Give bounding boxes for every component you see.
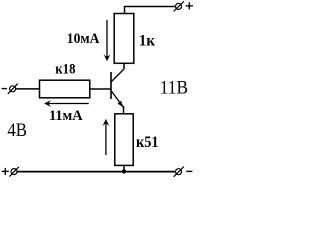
resistor R1 value 1к — [114, 14, 134, 64]
wire left terminal to R2 — [16, 88, 40, 90]
svg-text:11В: 11В — [160, 78, 188, 98]
wire bottom rail — [17, 171, 176, 173]
svg-text:к51: к51 — [136, 134, 159, 151]
transistor Q1 emitter lead — [111, 91, 124, 108]
terminal bottom-right (−) — [174, 167, 184, 177]
svg-text:к18: к18 — [55, 61, 75, 77]
terminal left (−) — [8, 84, 18, 94]
transistor Q1 collector lead — [111, 69, 124, 82]
svg-text:10мА: 10мА — [67, 31, 100, 47]
svg-text:11мА: 11мА — [49, 108, 83, 124]
wire emitter stub — [123, 106, 125, 114]
terminal bottom-left (+) — [9, 167, 18, 177]
svg-text:4В: 4В — [7, 121, 27, 141]
label + (top-right) — [186, 2, 193, 9]
terminal top-right (+) — [174, 1, 184, 11]
wire top: resistor R1 top to + terminal — [125, 7, 176, 14]
current arrow up (emitter current) — [102, 119, 109, 155]
label + (bottom-left) — [2, 168, 9, 175]
node junction dot — [122, 169, 126, 173]
wire R2 to base — [90, 88, 111, 90]
transistor Q1 base bar — [110, 72, 112, 99]
wire collector stub — [123, 63, 125, 69]
transistor Q1 emitter arrowhead — [118, 101, 124, 108]
label − (left) — [2, 88, 7, 90]
resistor R2 value к18 — [40, 80, 90, 98]
resistor R3 value к51 — [115, 114, 133, 166]
label − (bottom-right) — [186, 170, 192, 172]
current arrow 10мА (down) — [104, 20, 111, 61]
svg-text:1к: 1к — [139, 33, 156, 50]
wire R3 bottom stub — [123, 165, 125, 171]
current arrow 11мА (left) — [44, 100, 89, 107]
